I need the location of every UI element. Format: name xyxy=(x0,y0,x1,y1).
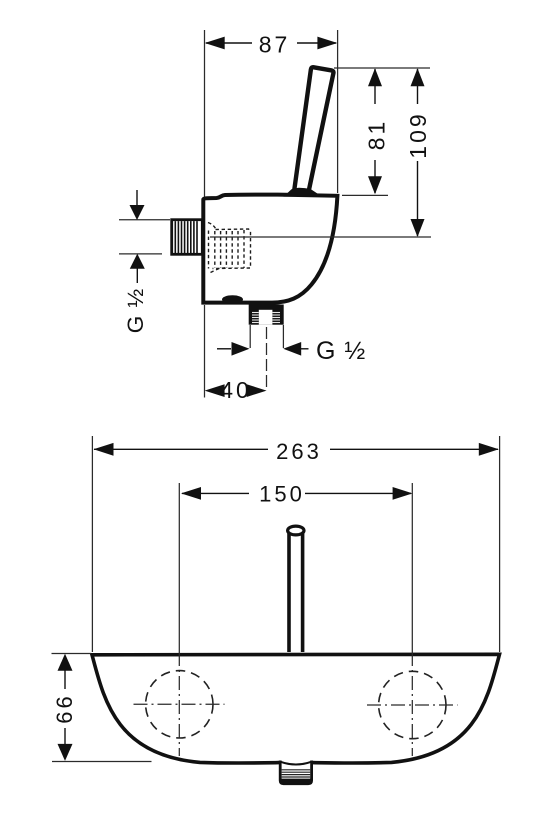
dimension 40 right arrowhead xyxy=(247,384,267,397)
extension line top for dim 66 xyxy=(52,653,92,655)
svg-text:40: 40 xyxy=(220,377,252,403)
nut left hatch xyxy=(252,313,259,323)
connector thread hatch xyxy=(175,221,197,253)
body front outline xyxy=(92,654,500,763)
drain ellipse on body bottom xyxy=(222,295,243,303)
dimension 81 down arrowhead xyxy=(368,176,382,194)
nut right hatch xyxy=(272,313,280,323)
G 1/2 (left) up arrow xyxy=(136,268,138,283)
svg-text:81: 81 xyxy=(363,119,389,151)
right hole center line vertical xyxy=(411,483,413,652)
dimension 40 left arrowhead xyxy=(205,384,225,397)
outlet center line xyxy=(266,327,268,390)
dimension 66 down arrowhead xyxy=(58,744,73,761)
dimension 150 line xyxy=(182,492,249,494)
left mounting hole dashed circle xyxy=(146,671,213,738)
dimension 150 right arrowhead xyxy=(393,487,413,500)
dimension 263 left arrowhead xyxy=(94,443,114,456)
dimension 66 up arrowhead xyxy=(58,654,73,671)
svg-text:87: 87 xyxy=(259,32,291,58)
dimension 87 left arrowhead xyxy=(205,37,225,50)
wall connector (threaded) xyxy=(172,220,203,255)
outlet (front view) xyxy=(280,761,311,784)
outlet right extension line xyxy=(282,325,284,348)
left hole horizontal center line xyxy=(134,703,225,705)
left hole center line vertical xyxy=(178,483,180,652)
dimension 66 line xyxy=(64,670,66,689)
dimension 150 left arrowhead xyxy=(181,487,201,500)
svg-text:109: 109 xyxy=(405,111,431,158)
G 1/2 (bottom) dimension left arrow xyxy=(217,348,231,350)
G 1/2 (left) lower extension line xyxy=(119,253,162,255)
extension line left of dim 263 xyxy=(91,436,93,652)
pin lever (front) right edge xyxy=(301,531,305,652)
svg-text:263: 263 xyxy=(276,439,322,464)
dimension 263 line xyxy=(94,448,268,450)
extension line at body top for dim 81 xyxy=(342,194,388,196)
extension line bottom for dim 66 xyxy=(52,761,152,763)
handle lever xyxy=(294,67,333,192)
pin lever (front) left edge xyxy=(287,531,291,652)
dimension 263 right arrowhead xyxy=(479,443,499,456)
svg-text:G ½: G ½ xyxy=(123,288,148,334)
svg-text:G ½: G ½ xyxy=(316,337,366,365)
G 1/2 (left) down arrow xyxy=(136,190,138,206)
handle base flare xyxy=(284,188,322,197)
dimension 109 line xyxy=(417,69,419,104)
right hole horizontal center line xyxy=(367,704,458,706)
dimension 81 line xyxy=(374,69,376,104)
extension line left for dim 40 xyxy=(204,305,206,398)
dimension 109 up arrowhead xyxy=(411,68,425,86)
svg-text:66: 66 xyxy=(52,693,77,723)
reference line at connection plane (109 bottom) xyxy=(210,236,431,238)
extension line right of dim 87 xyxy=(337,30,339,193)
extension line top (handle tip) for dims 81/109 xyxy=(334,67,430,69)
G 1/2 (bottom) dimension right arrow xyxy=(301,348,309,350)
hidden cartridge dashed outline xyxy=(208,223,251,273)
right mounting hole dashed circle xyxy=(379,671,446,738)
pin lever top cap xyxy=(288,526,304,535)
extension line left of dim 87 xyxy=(204,30,206,200)
dimension 87 line xyxy=(206,42,252,44)
outlet left extension line xyxy=(249,325,251,348)
dimension 109 down arrowhead xyxy=(411,219,425,237)
body side view outline xyxy=(203,195,337,303)
extension line right of dim 263 xyxy=(499,436,501,652)
dimension 81 up arrowhead xyxy=(368,68,382,86)
svg-text:150: 150 xyxy=(259,481,305,506)
outlet nut (side view) xyxy=(249,305,284,325)
G 1/2 (left) upper extension line xyxy=(119,219,170,221)
dimension 87 right arrowhead xyxy=(317,37,337,50)
